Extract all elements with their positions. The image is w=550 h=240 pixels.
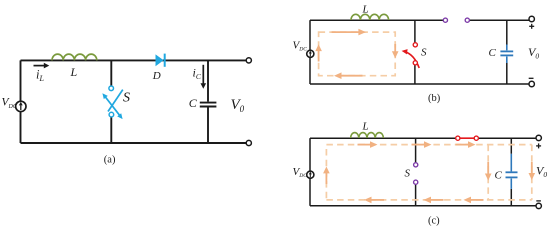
svg-text:V0: V0	[528, 45, 539, 61]
svg-text:L: L	[362, 4, 369, 16]
svg-text:VDC: VDC	[2, 97, 18, 110]
svg-text:S: S	[405, 168, 411, 180]
svg-text:L: L	[70, 65, 78, 79]
svg-text:L: L	[362, 121, 369, 133]
svg-text:iL: iL	[36, 68, 44, 84]
svg-text:S: S	[123, 91, 130, 106]
svg-text:VDC: VDC	[293, 166, 308, 179]
svg-text:(b): (b)	[428, 93, 441, 104]
svg-text:(a): (a)	[104, 154, 116, 165]
svg-text:C: C	[489, 47, 497, 59]
svg-text:V0: V0	[536, 163, 547, 179]
svg-text:iC: iC	[193, 66, 202, 82]
svg-text:VDC: VDC	[293, 39, 308, 52]
svg-text:D: D	[152, 70, 161, 82]
svg-text:V0: V0	[231, 97, 245, 114]
svg-text:S: S	[421, 47, 427, 59]
svg-text:(c): (c)	[428, 216, 440, 227]
svg-text:C: C	[189, 96, 198, 110]
svg-text:C: C	[495, 169, 503, 181]
